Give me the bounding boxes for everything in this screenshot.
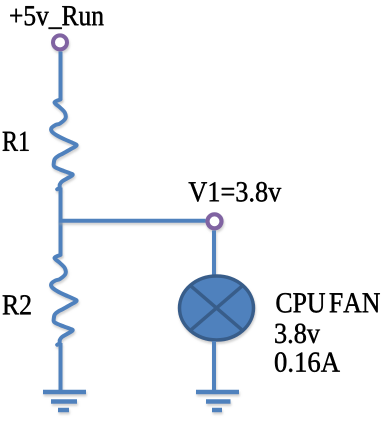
resistor R1	[51, 100, 76, 190]
wire junction to V1 terminal (horizontal)	[59, 219, 206, 223]
resistor R2	[51, 255, 76, 345]
lamp M1 CPU FAN	[180, 276, 254, 340]
wire V1 terminal to lamp	[212, 231, 216, 277]
wire from R2 to left ground	[59, 343, 63, 391]
wire from R1 to junction and R2	[59, 188, 63, 256]
ground (left)	[43, 392, 86, 410]
label R1	[3, 132, 29, 151]
terminal node +5v_Run	[53, 35, 67, 49]
ground (right)	[196, 392, 239, 410]
label 3.8v	[275, 324, 320, 344]
label V1=3.8v	[189, 182, 282, 202]
wire from +5v_Run terminal to R1	[59, 52, 63, 101]
node +5v_Run label	[10, 6, 103, 29]
label CPU FAN	[277, 293, 380, 313]
terminal node V1	[208, 214, 222, 228]
label 0.16A	[275, 352, 340, 372]
label R2	[3, 295, 31, 314]
wire lamp to right ground	[212, 341, 216, 391]
